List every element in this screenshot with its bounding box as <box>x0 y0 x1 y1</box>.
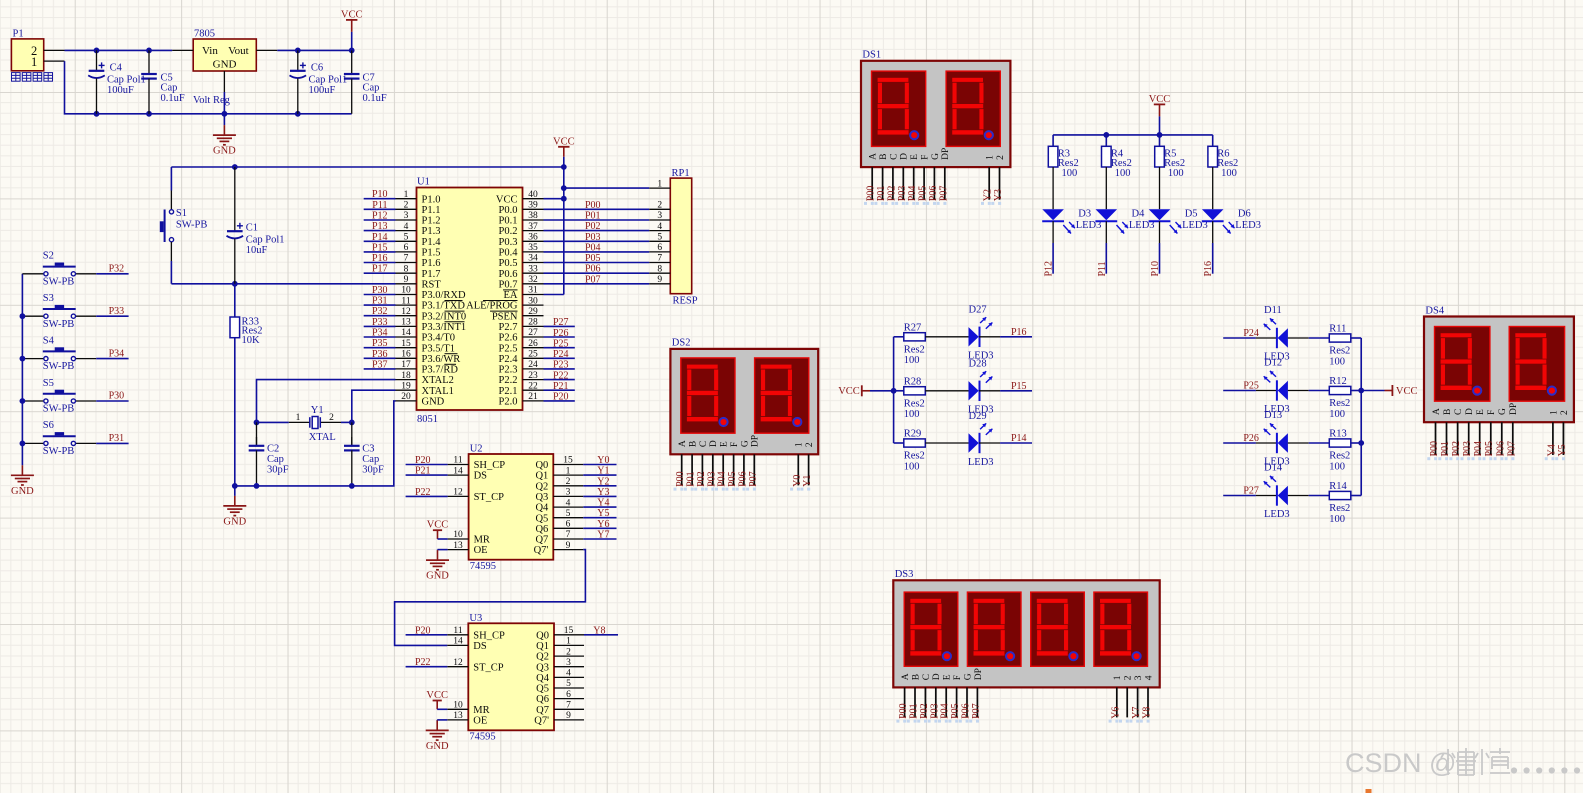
wire P20 to U3 <box>406 634 448 636</box>
svg-text:P25: P25 <box>1243 381 1259 392</box>
svg-text:P03: P03 <box>585 232 601 243</box>
svg-text:P0.6: P0.6 <box>499 269 518 280</box>
svg-text:ST_CP: ST_CP <box>473 662 504 673</box>
svg-text:D28: D28 <box>969 359 987 370</box>
svg-text:D: D <box>1465 408 1475 415</box>
label C4 values <box>107 63 146 96</box>
svg-text:P2.3: P2.3 <box>499 365 518 376</box>
svg-text:R12: R12 <box>1329 376 1347 387</box>
svg-text:10: 10 <box>453 701 463 711</box>
label R28 values <box>904 377 925 421</box>
svg-text:Res2: Res2 <box>1164 158 1185 169</box>
svg-text:P16: P16 <box>1011 327 1027 338</box>
svg-text:1: 1 <box>31 55 37 69</box>
svg-text:P32: P32 <box>109 264 125 275</box>
svg-text:R13: R13 <box>1329 429 1347 440</box>
svg-text:14: 14 <box>401 328 411 338</box>
svg-text:2: 2 <box>1560 410 1570 415</box>
label D11 <box>1264 305 1290 362</box>
svg-text:G: G <box>963 673 973 680</box>
wire U2 Q7' to U3 DS <box>395 550 586 646</box>
wire D28 to net <box>979 390 1032 392</box>
svg-text:C: C <box>1454 409 1464 415</box>
wire P22 to U3 <box>406 666 448 668</box>
svg-text:P0.7: P0.7 <box>499 279 518 290</box>
wire U1 pin31 EA <box>544 294 564 296</box>
svg-text:P06: P06 <box>1495 441 1506 457</box>
svg-text:Vout: Vout <box>228 45 249 57</box>
svg-text:74595: 74595 <box>469 731 495 742</box>
svg-text:P34: P34 <box>372 328 388 339</box>
switch S5 SW-PB <box>22 390 96 403</box>
svg-text:VCC: VCC <box>426 690 448 701</box>
wire Y8 from U3 Q0 <box>584 634 618 636</box>
svg-text:11: 11 <box>453 456 462 466</box>
svg-text:3: 3 <box>566 488 571 498</box>
svg-text:P30: P30 <box>109 391 125 402</box>
svg-text:F: F <box>1487 410 1497 415</box>
svg-text:100: 100 <box>1168 168 1184 179</box>
svg-text:DP: DP <box>941 148 951 160</box>
wire D4 down <box>1105 221 1107 274</box>
svg-text:C: C <box>922 674 932 680</box>
svg-text:SH_CP: SH_CP <box>474 460 506 471</box>
svg-text:25: 25 <box>528 350 538 360</box>
svg-text:P03: P03 <box>1462 441 1473 457</box>
svg-text:100: 100 <box>1062 168 1078 179</box>
U1 P3 port wires <box>364 295 396 369</box>
svg-text:Q7: Q7 <box>535 535 548 546</box>
svg-text:P11: P11 <box>1097 261 1108 276</box>
svg-text:13: 13 <box>453 541 463 551</box>
svg-text:16: 16 <box>401 350 411 360</box>
svg-text:30pF: 30pF <box>267 464 289 475</box>
svg-text:Y8: Y8 <box>593 625 605 636</box>
capacitor C7 <box>344 50 360 113</box>
wire rail to R5 <box>1159 135 1161 146</box>
svg-text:Q2: Q2 <box>535 481 548 492</box>
resistor R5 <box>1155 146 1165 167</box>
junction <box>1358 440 1364 446</box>
svg-text:GND: GND <box>11 486 34 497</box>
svg-text:SW-PB: SW-PB <box>43 446 75 457</box>
svg-text:GND: GND <box>426 571 449 582</box>
svg-text:S4: S4 <box>43 335 55 346</box>
svg-text:VCC: VCC <box>1396 386 1418 397</box>
capacitor C1 <box>227 167 244 284</box>
switch S4 SW-PB <box>22 347 96 360</box>
svg-text:P33: P33 <box>372 317 388 328</box>
svg-text:D11: D11 <box>1264 305 1282 316</box>
svg-text:Res2: Res2 <box>904 344 925 355</box>
svg-text:1: 1 <box>1113 675 1123 680</box>
svg-text:7: 7 <box>404 254 409 264</box>
svg-text:OE: OE <box>474 545 488 556</box>
capacitor C6 <box>290 50 307 113</box>
svg-text:P24: P24 <box>1243 328 1259 339</box>
label D3 <box>1076 208 1102 231</box>
svg-text:VCC: VCC <box>838 386 860 397</box>
svg-text:3: 3 <box>657 211 662 221</box>
LED D12 <box>1264 371 1288 401</box>
svg-text:P31: P31 <box>109 433 125 444</box>
svg-text:B: B <box>1443 409 1453 415</box>
svg-text:P22: P22 <box>553 370 569 381</box>
svg-text:12: 12 <box>401 307 411 317</box>
wire Y1 left <box>257 421 289 423</box>
svg-text:RESP: RESP <box>673 296 698 307</box>
svg-text:P04: P04 <box>717 471 728 487</box>
junction <box>94 111 100 117</box>
resistor R4 <box>1102 146 1112 167</box>
U3 pins right <box>534 626 584 727</box>
LED D6 <box>1202 209 1235 233</box>
svg-text:P1.2: P1.2 <box>422 216 441 227</box>
label D12 <box>1264 358 1290 415</box>
power VCC at U3 <box>426 690 448 709</box>
power VCC at U2 <box>427 520 449 539</box>
svg-text:8051: 8051 <box>417 414 438 425</box>
svg-text:XTAL1: XTAL1 <box>422 386 454 397</box>
svg-text:Q2: Q2 <box>536 652 549 663</box>
svg-text:36: 36 <box>528 233 538 243</box>
svg-text:LED3: LED3 <box>1235 220 1261 231</box>
resistor R3 <box>1048 146 1058 167</box>
svg-text:P1.3: P1.3 <box>422 226 441 237</box>
svg-text:P0.3: P0.3 <box>499 237 518 248</box>
svg-text:P36: P36 <box>372 349 388 360</box>
svg-text:4: 4 <box>566 669 571 679</box>
resistor R12 <box>1329 386 1351 394</box>
svg-text:SW-PB: SW-PB <box>43 319 75 330</box>
svg-text:Q4: Q4 <box>535 503 549 514</box>
svg-text:P07: P07 <box>938 186 949 202</box>
svg-text:Q7': Q7' <box>534 545 549 556</box>
label C7 values <box>363 72 387 104</box>
svg-text:Q1: Q1 <box>536 641 549 652</box>
crystal Y1 <box>289 413 341 429</box>
label D29 <box>968 411 994 468</box>
svg-text:2: 2 <box>657 201 662 211</box>
junction <box>232 281 238 287</box>
wire XTAL2 to Y1 <box>257 380 396 423</box>
svg-text:18: 18 <box>401 371 411 381</box>
svg-text:P17: P17 <box>372 264 388 275</box>
svg-text:3: 3 <box>404 211 409 221</box>
svg-text:P05: P05 <box>1484 441 1495 457</box>
svg-text:15: 15 <box>564 626 574 636</box>
LED D3 <box>1042 209 1075 233</box>
svg-text:Q4: Q4 <box>536 673 550 684</box>
wire R28 to D28 <box>925 390 968 392</box>
svg-text:13: 13 <box>453 711 463 721</box>
wire 7805 GND pin down <box>223 92 225 114</box>
svg-text:VCC: VCC <box>553 137 575 148</box>
svg-text:P3.0/RXD: P3.0/RXD <box>422 290 466 301</box>
resistor R28 <box>904 387 926 395</box>
svg-text:100uF: 100uF <box>309 85 336 96</box>
resistor R14 <box>1329 491 1351 499</box>
svg-text:A: A <box>901 673 911 680</box>
svg-text:VCC: VCC <box>496 194 518 205</box>
svg-text:9: 9 <box>566 711 571 721</box>
wire VCC rail to S1 and C1 <box>171 166 563 168</box>
junction <box>295 48 301 54</box>
svg-text:2: 2 <box>566 477 571 487</box>
svg-text:E: E <box>910 154 920 160</box>
svg-text:9: 9 <box>657 275 662 285</box>
junction <box>349 483 355 489</box>
svg-text:P2.0: P2.0 <box>499 397 518 408</box>
svg-text:24: 24 <box>528 360 538 370</box>
svg-text:2: 2 <box>805 442 815 447</box>
label C6 values <box>309 63 348 96</box>
wire mid bank vertical <box>893 337 895 443</box>
watermark CSDN <box>1345 748 1580 778</box>
wire to R29 <box>894 442 904 444</box>
ground at U3 OE <box>426 720 449 752</box>
svg-text:P3.5/T1: P3.5/T1 <box>422 343 456 354</box>
wire D3 down <box>1052 221 1054 274</box>
svg-text:SW-PB: SW-PB <box>43 404 75 415</box>
U2 pins right <box>534 456 584 557</box>
power VCC at U1 <box>553 137 575 167</box>
svg-text:P3.4/T0: P3.4/T0 <box>422 333 456 344</box>
svg-text:C: C <box>699 441 709 447</box>
svg-text:100: 100 <box>1221 168 1237 179</box>
svg-text:P1.4: P1.4 <box>422 237 442 248</box>
svg-text:37: 37 <box>528 222 538 232</box>
svg-text:OE: OE <box>473 716 487 727</box>
svg-text:Q3: Q3 <box>536 662 549 673</box>
svg-text:P22: P22 <box>415 487 431 498</box>
wire P1 pin2 to 7805 Vin <box>65 49 173 51</box>
svg-text:P04: P04 <box>940 703 951 719</box>
svg-text:P20: P20 <box>553 392 569 403</box>
svg-text:P37: P37 <box>372 359 388 370</box>
svg-text:G: G <box>931 153 941 160</box>
svg-text:Q0: Q0 <box>536 630 549 641</box>
switch S2 SW-PB <box>22 263 96 276</box>
wire Y1 right to C3 <box>341 421 352 423</box>
junction <box>295 111 301 117</box>
svg-text:33: 33 <box>528 264 538 274</box>
svg-text:P12: P12 <box>372 211 388 222</box>
svg-text:5: 5 <box>404 233 409 243</box>
svg-text:DP: DP <box>1509 403 1519 415</box>
svg-text:P2.2: P2.2 <box>499 375 518 386</box>
svg-text:C3: C3 <box>362 443 374 454</box>
svg-text:74595: 74595 <box>470 561 496 572</box>
svg-text:S1: S1 <box>176 208 187 219</box>
junction <box>20 441 26 447</box>
svg-text:P07: P07 <box>971 703 982 719</box>
svg-text:R28: R28 <box>904 377 922 388</box>
svg-text:100: 100 <box>904 461 920 472</box>
svg-text:39: 39 <box>528 201 538 211</box>
svg-text:GND: GND <box>426 741 449 752</box>
wire P24 left <box>1223 337 1277 339</box>
svg-text:D27: D27 <box>969 305 987 316</box>
svg-text:P02: P02 <box>1451 441 1462 457</box>
svg-text:P10: P10 <box>372 189 388 200</box>
label D6 <box>1235 208 1261 231</box>
svg-text:P06: P06 <box>737 471 748 487</box>
svg-text:10K: 10K <box>242 335 261 346</box>
svg-text:P30: P30 <box>372 285 388 296</box>
svg-text:0.1uF: 0.1uF <box>363 93 387 104</box>
label D14 <box>1264 463 1290 520</box>
svg-text:Q6: Q6 <box>536 694 549 705</box>
svg-text:D14: D14 <box>1264 463 1283 474</box>
svg-text:P15: P15 <box>372 242 388 253</box>
svg-text:P13: P13 <box>372 221 388 232</box>
svg-text:B: B <box>879 154 889 160</box>
svg-text:2: 2 <box>996 155 1006 160</box>
svg-text:5: 5 <box>657 233 662 243</box>
svg-text:DS3: DS3 <box>895 569 914 580</box>
svg-text:VCC: VCC <box>341 10 363 21</box>
svg-text:DS1: DS1 <box>862 50 881 61</box>
wire RP1 pin1 <box>564 187 650 189</box>
wire P34 to net <box>96 358 128 360</box>
svg-text:P0.2: P0.2 <box>499 226 518 237</box>
regulator 7805 U <box>172 39 277 92</box>
svg-text:PSEN: PSEN <box>492 311 518 322</box>
svg-text:P02: P02 <box>919 703 930 719</box>
svg-text:4: 4 <box>1144 675 1154 680</box>
svg-text:31: 31 <box>528 286 538 296</box>
label R12 values <box>1329 376 1350 420</box>
svg-text:Q6: Q6 <box>535 524 548 535</box>
label D4 <box>1129 208 1155 231</box>
svg-text:DS4: DS4 <box>1425 305 1444 316</box>
capacitor C3 <box>344 422 360 486</box>
svg-text:27: 27 <box>528 328 538 338</box>
svg-text:VCC: VCC <box>1149 94 1171 105</box>
wire VCC rail LED bank <box>1053 134 1213 136</box>
svg-text:P24: P24 <box>553 349 569 360</box>
svg-text:P0.4: P0.4 <box>499 248 519 259</box>
wire D6 down <box>1212 221 1214 274</box>
LED D28 <box>969 371 993 401</box>
svg-text:P07: P07 <box>585 274 601 285</box>
switch S3 SW-PB <box>22 305 96 318</box>
wire U1 pin40 VCC <box>544 198 564 200</box>
svg-text:8: 8 <box>657 264 662 274</box>
label D13 <box>1264 410 1290 467</box>
junction <box>561 196 567 202</box>
svg-text:P2.7: P2.7 <box>499 322 518 333</box>
svg-text:30pF: 30pF <box>362 464 384 475</box>
svg-text:40: 40 <box>528 190 538 200</box>
svg-text:P3.7/RD: P3.7/RD <box>422 365 459 376</box>
svg-text:0.1uF: 0.1uF <box>161 93 185 104</box>
U1 P0 port wires <box>544 209 650 283</box>
wire D27 to net <box>979 336 1032 338</box>
svg-text:1: 1 <box>1549 410 1559 415</box>
wire P21 to U2 <box>406 474 448 476</box>
U1 P2 port wires <box>544 326 575 401</box>
svg-text:P0.0: P0.0 <box>499 205 518 216</box>
label D5 <box>1182 208 1208 231</box>
label R13 values <box>1329 429 1350 473</box>
capacitor C4 <box>88 50 105 113</box>
svg-text:P21: P21 <box>553 381 569 392</box>
svg-text:E: E <box>720 441 730 447</box>
svg-text:P15: P15 <box>1011 381 1027 392</box>
svg-text:Res2: Res2 <box>904 398 925 409</box>
svg-text:P1.1: P1.1 <box>422 205 441 216</box>
svg-text:P1.5: P1.5 <box>422 248 441 259</box>
svg-text:Q1: Q1 <box>535 471 548 482</box>
wire to R27 <box>894 336 904 338</box>
svg-text:14: 14 <box>453 466 463 476</box>
wire to R28 <box>894 390 904 392</box>
wire C3 up to XTAL1 <box>352 390 396 422</box>
label R27 values <box>904 323 925 367</box>
svg-text:P00: P00 <box>898 703 909 719</box>
wire rail to R4 <box>1105 135 1107 146</box>
wire 7805 Vout to VCC <box>277 49 351 51</box>
svg-text:P26: P26 <box>1243 433 1259 444</box>
LED D11 <box>1264 318 1288 348</box>
junction <box>232 483 238 489</box>
svg-text:P0.5: P0.5 <box>499 258 518 269</box>
U3 pins left <box>447 626 505 727</box>
svg-text:P3.2/INT0: P3.2/INT0 <box>422 311 467 322</box>
svg-text:Y5: Y5 <box>1557 444 1568 456</box>
7-seg display DS1 <box>861 61 1010 205</box>
svg-text:P31: P31 <box>372 296 388 307</box>
svg-text:D29: D29 <box>969 411 987 422</box>
svg-text:Res2: Res2 <box>1329 398 1350 409</box>
svg-text:1: 1 <box>404 190 409 200</box>
label dian-yuan-jie-kou (power connector) <box>12 73 53 82</box>
svg-text:6: 6 <box>566 690 571 700</box>
svg-text:D: D <box>932 673 942 680</box>
label R5 values <box>1164 148 1185 179</box>
wire P33 to net <box>96 315 128 317</box>
svg-text:R14: R14 <box>1329 481 1347 492</box>
svg-text:1: 1 <box>986 155 996 160</box>
7-seg display DS3 <box>893 580 1159 722</box>
svg-text:6: 6 <box>657 243 662 253</box>
svg-text:22: 22 <box>528 381 538 391</box>
svg-text:Res2: Res2 <box>1329 503 1350 514</box>
wire P27 left <box>1223 495 1277 497</box>
ground GND under R33 <box>223 486 246 528</box>
svg-text:15: 15 <box>563 456 573 466</box>
svg-text:P01: P01 <box>1440 441 1451 457</box>
svg-text:F: F <box>730 442 740 447</box>
svg-text:5: 5 <box>566 509 571 519</box>
svg-text:6: 6 <box>404 243 409 253</box>
svg-text:U1: U1 <box>417 176 430 187</box>
op-amp U2 74595 body <box>469 454 554 560</box>
svg-text:P1.0: P1.0 <box>422 194 441 205</box>
junction <box>20 313 26 319</box>
resistor R33 <box>230 284 240 486</box>
wire R6 to D6 <box>1212 167 1214 209</box>
svg-text:D13: D13 <box>1264 410 1282 421</box>
svg-text:R29: R29 <box>904 429 922 440</box>
svg-text:P03: P03 <box>929 703 940 719</box>
svg-text:Res2: Res2 <box>904 451 925 462</box>
svg-text:4: 4 <box>566 498 571 508</box>
svg-text:P00: P00 <box>585 200 601 211</box>
svg-text:Res2: Res2 <box>1058 158 1079 169</box>
